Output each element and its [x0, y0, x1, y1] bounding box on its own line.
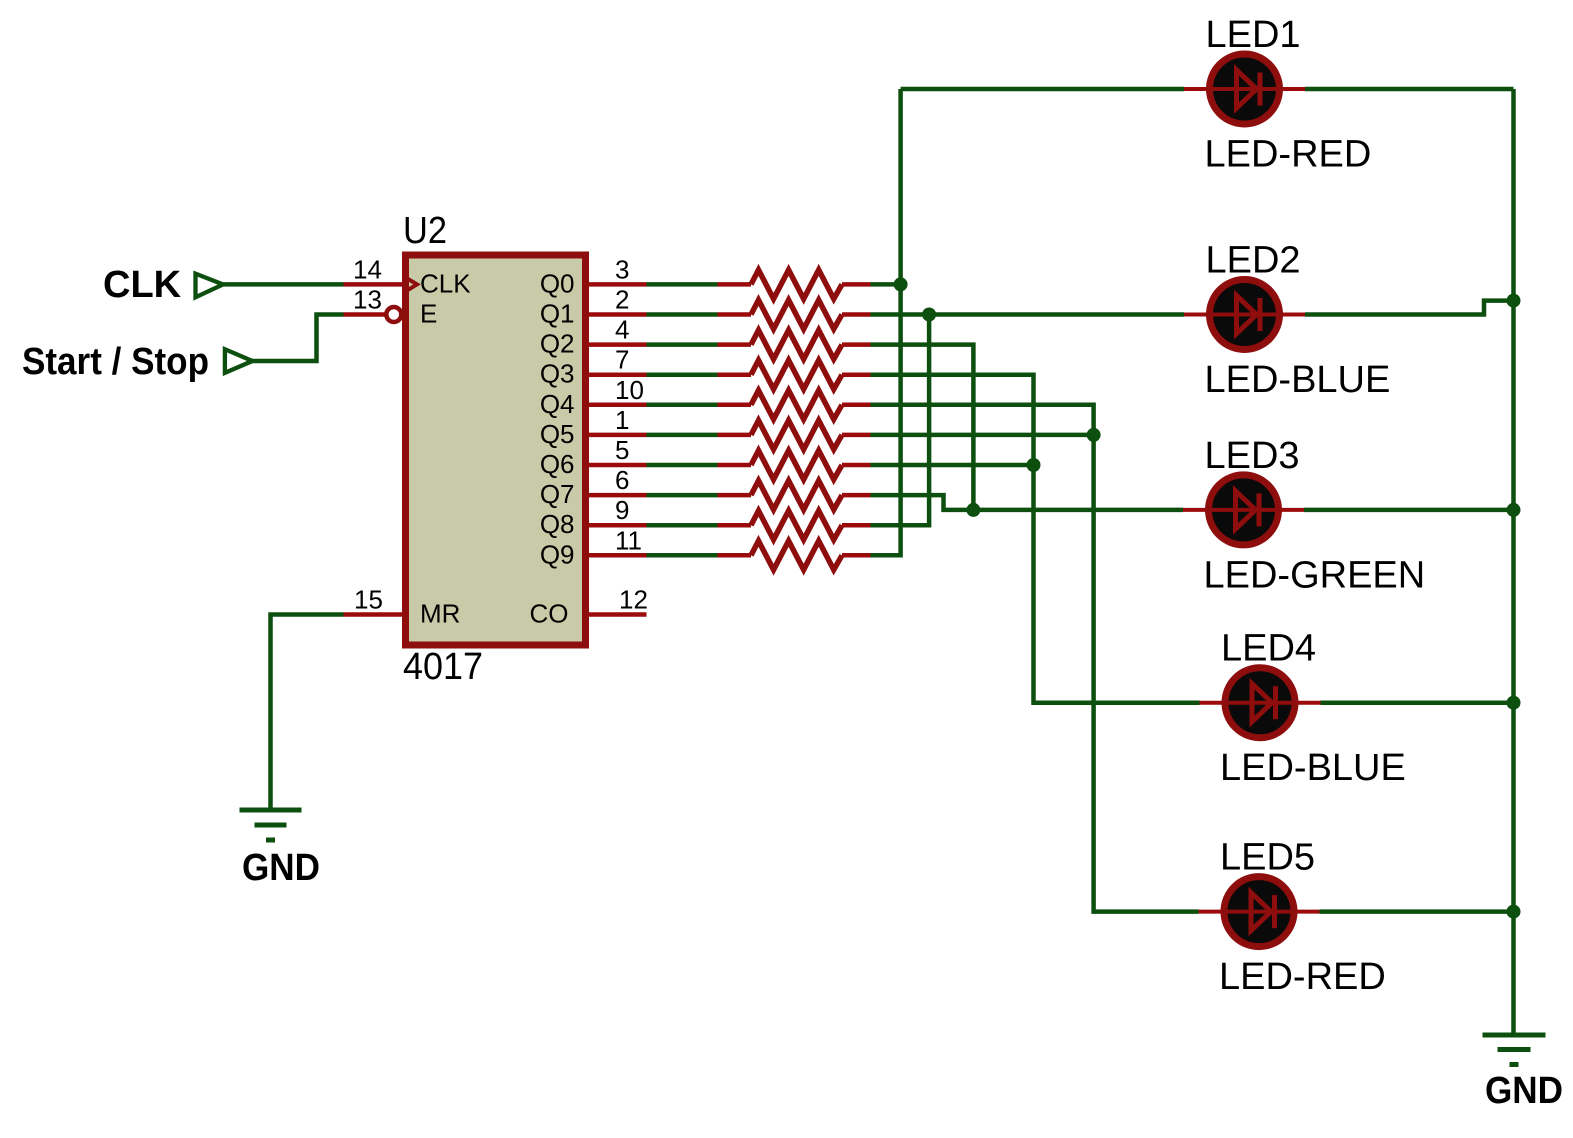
Start/Stop input terminal triangle — [225, 349, 253, 373]
junction node C (Q2/Q7/LED3) — [966, 503, 980, 517]
junction node B (Q1/Q8/LED2) — [922, 308, 936, 322]
pin 13 stub (E) — [344, 312, 386, 317]
svg-text:LED4: LED4 — [1221, 628, 1316, 670]
resistor (Q8 series) — [718, 523, 752, 528]
pin 2 stub (Q1) — [588, 312, 647, 317]
wire pin 7 to resistor — [647, 372, 718, 377]
CLK input terminal triangle — [196, 274, 224, 298]
wire pin 6 to resistor — [647, 493, 718, 498]
junction LED2-bus — [1507, 294, 1521, 308]
junction node D (Q3/Q6/LED4) — [1027, 458, 1041, 472]
svg-text:Q7: Q7 — [540, 479, 575, 509]
LED LED5 (LED-RED) — [1199, 877, 1320, 947]
svg-text:Q8: Q8 — [540, 509, 575, 539]
svg-text:Q2: Q2 — [540, 329, 575, 359]
pin 5 stub (Q6) — [588, 463, 647, 468]
svg-text:LED-GREEN: LED-GREEN — [1204, 554, 1426, 596]
svg-text:MR: MR — [420, 599, 460, 629]
wire LED3 cathode to bus — [1304, 508, 1514, 513]
wire Q2 resistor down to node C — [871, 345, 974, 510]
wire Q7 resistor jog to LED3 anode — [871, 495, 1184, 510]
svg-text:4: 4 — [615, 315, 629, 345]
wire Q3 resistor down to LED4 anode — [871, 375, 1200, 703]
right ground bus vertical — [1511, 89, 1516, 1035]
svg-text:15: 15 — [354, 585, 383, 615]
pin 11 stub (Q9) — [588, 553, 647, 558]
resistor (Q3 series) — [718, 372, 752, 377]
svg-text:CO: CO — [530, 599, 569, 629]
wire pin 11 to resistor — [647, 553, 718, 558]
resistor (Q9 series) — [718, 553, 752, 558]
pin 3 stub (Q0) — [588, 282, 647, 287]
svg-text:Q9: Q9 — [540, 539, 575, 569]
wire Q4 resistor down to LED5 anode — [871, 405, 1199, 912]
wire pin 5 to resistor — [647, 463, 718, 468]
resistor (Q4 series) — [718, 403, 752, 408]
svg-text:LED5: LED5 — [1220, 837, 1315, 879]
svg-text:4017: 4017 — [403, 646, 483, 688]
wire Q9 resistor to node A vertical — [871, 284, 901, 555]
svg-text:2: 2 — [615, 285, 629, 315]
svg-text:LED-RED: LED-RED — [1205, 134, 1372, 176]
junction LED4-bus — [1507, 696, 1521, 710]
svg-text:Q3: Q3 — [540, 359, 575, 389]
svg-text:12: 12 — [619, 585, 648, 615]
svg-text:Q0: Q0 — [540, 268, 575, 298]
wire pin 1 to resistor — [647, 433, 718, 438]
LED LED1 (LED-RED) — [1184, 54, 1305, 124]
svg-text:E: E — [420, 299, 437, 329]
IC U2 4017 body — [406, 255, 586, 645]
wire pin 10 to resistor — [647, 403, 718, 408]
resistor (Q2 series) — [718, 342, 752, 347]
resistor (Q7 series) — [718, 493, 752, 498]
resistor (Q5 series) — [718, 433, 752, 438]
wire MR pin to left ground — [271, 615, 344, 811]
clock input arrow on CLK pin — [403, 276, 417, 293]
junction node E (Q4/Q5/LED5) — [1087, 428, 1101, 442]
wire Q5 resistor to node E — [871, 433, 1094, 438]
wire Start/Stop to pin 13 (E) — [252, 315, 343, 362]
ground symbol (left) — [240, 808, 302, 813]
LED LED4 (LED-BLUE) — [1200, 668, 1321, 738]
wire LED2 cathode jog to bus — [1305, 301, 1514, 315]
svg-text:U2: U2 — [403, 210, 447, 252]
wire LED5 cathode to bus — [1320, 909, 1514, 914]
svg-text:LED3: LED3 — [1205, 435, 1300, 477]
svg-text:7: 7 — [615, 345, 629, 375]
svg-text:5: 5 — [615, 435, 629, 465]
resistor (Q1 series) — [718, 312, 752, 317]
pin 6 stub (Q7) — [588, 493, 647, 498]
svg-text:LED-BLUE: LED-BLUE — [1220, 747, 1406, 789]
svg-text:CLK: CLK — [103, 264, 182, 306]
svg-text:14: 14 — [353, 254, 382, 284]
wire pin 9 to resistor — [647, 523, 718, 528]
pin 1 stub (Q5) — [588, 433, 647, 438]
svg-text:13: 13 — [353, 285, 382, 315]
resistor (Q0 series) — [718, 282, 752, 287]
wire Q0 resistor to node A — [871, 282, 901, 287]
wire Q6 resistor to node D — [871, 463, 1034, 468]
svg-text:LED1: LED1 — [1206, 14, 1301, 56]
pin 12 stub (CO) — [588, 612, 647, 617]
svg-text:6: 6 — [615, 465, 629, 495]
svg-text:LED-BLUE: LED-BLUE — [1205, 359, 1391, 401]
wire LED4 cathode to bus — [1321, 700, 1514, 705]
LED LED2 (LED-BLUE) — [1184, 280, 1305, 350]
svg-text:LED2: LED2 — [1206, 240, 1301, 282]
svg-text:Q5: Q5 — [540, 419, 575, 449]
inversion bubble on E pin — [386, 307, 401, 322]
wire pin 3 to resistor — [647, 282, 718, 287]
wire Q8 resistor up to node B — [871, 315, 930, 526]
svg-text:Q6: Q6 — [540, 449, 575, 479]
pin 4 stub (Q2) — [588, 342, 647, 347]
svg-text:CLK: CLK — [420, 268, 471, 298]
wire LED1 row to LED1 anode — [901, 87, 1184, 92]
wire pin 4 to resistor — [647, 342, 718, 347]
wire LED1 cathode to right bus — [1305, 87, 1514, 92]
pin 14 stub (CLK) — [344, 282, 403, 287]
svg-text:9: 9 — [615, 495, 629, 525]
wire Q1 resistor to node B and LED2 anode — [871, 312, 1185, 317]
svg-text:Q4: Q4 — [540, 389, 575, 419]
svg-text:10: 10 — [615, 375, 644, 405]
pin 10 stub (Q4) — [588, 403, 647, 408]
wire node A up to LED1 row — [898, 89, 903, 284]
wire pin 2 to resistor — [647, 312, 718, 317]
pin 15 stub (MR) — [344, 612, 403, 617]
pin 9 stub (Q8) — [588, 523, 647, 528]
wire CLK terminal to pin 14 — [223, 282, 344, 287]
resistor (Q6 series) — [718, 463, 752, 468]
junction LED5-bus — [1507, 905, 1521, 919]
ground symbol (right) — [1483, 1033, 1546, 1038]
svg-text:11: 11 — [615, 525, 642, 555]
svg-text:GND: GND — [1485, 1070, 1563, 1112]
svg-text:Q1: Q1 — [540, 299, 575, 329]
svg-text:LED-RED: LED-RED — [1219, 956, 1386, 998]
junction LED3-bus — [1507, 503, 1521, 517]
svg-text:GND: GND — [242, 847, 320, 889]
LED LED3 (LED-GREEN) — [1183, 475, 1304, 545]
pin 7 stub (Q3) — [588, 372, 647, 377]
svg-text:1: 1 — [615, 405, 629, 435]
junction node A (Q0/Q9/LED1) — [894, 277, 908, 291]
svg-text:Start / Stop: Start / Stop — [22, 341, 209, 383]
svg-text:3: 3 — [615, 254, 629, 284]
